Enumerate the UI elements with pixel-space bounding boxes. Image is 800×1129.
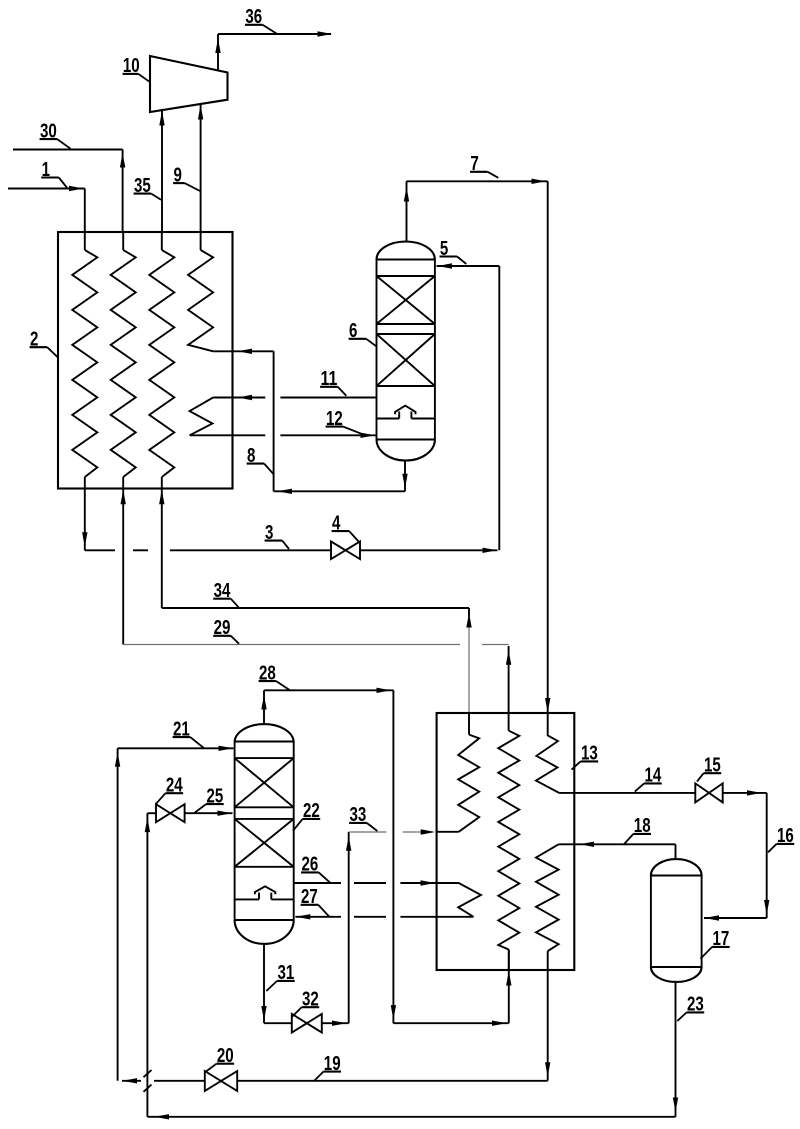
column 22 packing X1 bbox=[235, 758, 294, 807]
label 24 bbox=[156, 774, 183, 804]
label 1 bbox=[41, 158, 67, 188]
label 29 bbox=[213, 616, 239, 644]
stream 5 line bbox=[437, 263, 500, 550]
column 6 vapor hat bbox=[377, 406, 435, 440]
label 36 bbox=[245, 5, 277, 34]
label 5 bbox=[440, 237, 467, 264]
separator vessel 17 bbox=[651, 859, 702, 982]
stream 23 line bbox=[147, 982, 678, 1120]
label 17 bbox=[701, 927, 730, 959]
stream 11 line bbox=[213, 395, 376, 400]
label 21 bbox=[173, 717, 204, 748]
column 6 bottoms line bbox=[274, 461, 408, 495]
stream 32 outlet line bbox=[322, 1021, 349, 1026]
label 20 bbox=[206, 1044, 234, 1072]
label 31 bbox=[266, 961, 294, 991]
label 32 bbox=[292, 988, 319, 1017]
column 6 packing X2 bbox=[377, 334, 435, 386]
label 33 bbox=[349, 803, 377, 831]
stream 26 line bbox=[294, 880, 460, 885]
label 27 bbox=[301, 885, 329, 916]
stream 14 line bbox=[559, 790, 767, 795]
label 2 bbox=[30, 328, 58, 358]
label 23 bbox=[677, 993, 704, 1021]
label 26 bbox=[301, 853, 330, 883]
coil 2 in exchanger 2 (stream 29-30) bbox=[111, 232, 136, 489]
stream 29 arrow into coil 2 bbox=[121, 490, 126, 505]
stream 23 riser to valve 24 bbox=[145, 813, 150, 1117]
label 8 bbox=[247, 444, 274, 474]
stream 21 line bbox=[115, 746, 234, 1081]
label 7 bbox=[470, 152, 498, 178]
stream 28 line bbox=[261, 688, 511, 1026]
label 4 bbox=[332, 511, 359, 542]
label 30 bbox=[40, 119, 71, 148]
label 6 bbox=[349, 319, 377, 346]
label 34 bbox=[213, 579, 239, 608]
stream 18 line bbox=[559, 842, 676, 859]
heat exchanger 2 shell bbox=[58, 232, 233, 489]
stream 3 line bbox=[82, 489, 497, 554]
valve 24 bbox=[147, 804, 184, 822]
coil 1 upper in exchanger 13 bbox=[458, 735, 479, 832]
stream 34 line bbox=[162, 489, 472, 735]
coil 1 in exchanger 2 (stream 1-3) bbox=[72, 232, 97, 489]
heat exchanger 13 shell bbox=[437, 713, 575, 970]
valve 32 bbox=[292, 1014, 322, 1033]
label 19 bbox=[314, 1052, 341, 1081]
stream 7 line bbox=[404, 179, 551, 713]
stream 34 arrow into coil 3 bbox=[159, 490, 164, 505]
label 12 bbox=[326, 407, 362, 434]
turbine 10 expander body bbox=[150, 56, 228, 112]
label 25 bbox=[195, 784, 224, 812]
stream 9 line turbine inlet bbox=[198, 104, 203, 232]
stream 35 line turbine inlet bbox=[159, 110, 164, 232]
label 11 bbox=[320, 367, 346, 396]
label 3 bbox=[265, 521, 289, 549]
label 16 bbox=[768, 824, 794, 852]
stream 25 line bbox=[185, 811, 233, 816]
stream 33 line bbox=[346, 829, 459, 1023]
label 18 bbox=[624, 814, 651, 844]
coil 1 lower in exchanger 13 bbox=[458, 883, 481, 917]
stream 29 line bbox=[123, 489, 512, 731]
label 35 bbox=[134, 174, 161, 200]
valve 20 bbox=[205, 1071, 237, 1091]
valve 15 bbox=[695, 783, 722, 802]
column 22 packing X2 bbox=[235, 819, 294, 867]
coil 3 in exchanger 2 (stream 34-35) bbox=[149, 232, 174, 489]
label 9 bbox=[173, 163, 200, 191]
column 22 shell bbox=[235, 724, 294, 944]
column 22 vapor hat bbox=[235, 886, 294, 920]
coil 3 lower in exchanger 13 bbox=[536, 844, 559, 970]
column 6 packing X1 bbox=[377, 276, 435, 324]
coil 4 reboiler section in exchanger 2 bbox=[190, 398, 214, 436]
coil 4 upper section in exchanger 2 (stream 8-9) bbox=[188, 232, 213, 351]
stream 8 line into coil 4 bbox=[213, 349, 274, 354]
valve 4 bbox=[331, 542, 360, 560]
stream 36 outlet line bbox=[215, 31, 332, 71]
label 10 bbox=[123, 54, 151, 82]
label 28 bbox=[259, 661, 291, 690]
stream 31 line bbox=[261, 943, 292, 1023]
label 22 bbox=[293, 799, 320, 831]
label 15 bbox=[697, 754, 721, 782]
label 14 bbox=[635, 764, 662, 792]
stream 27 line bbox=[295, 914, 473, 919]
coil 3 upper in exchanger 13 bbox=[536, 713, 559, 793]
stream 19 line bbox=[122, 970, 550, 1084]
stream 30 line bbox=[13, 150, 125, 233]
stream 12 line bbox=[190, 433, 376, 438]
stream 8 riser bbox=[273, 351, 275, 491]
coil 2 in exchanger 13 bbox=[498, 731, 519, 970]
column 6 shell bbox=[377, 242, 435, 461]
stream 16 line bbox=[704, 793, 769, 921]
stream 19 crossover break bbox=[144, 1070, 152, 1092]
label 13 bbox=[572, 742, 599, 770]
stream 1 line bbox=[8, 186, 85, 232]
